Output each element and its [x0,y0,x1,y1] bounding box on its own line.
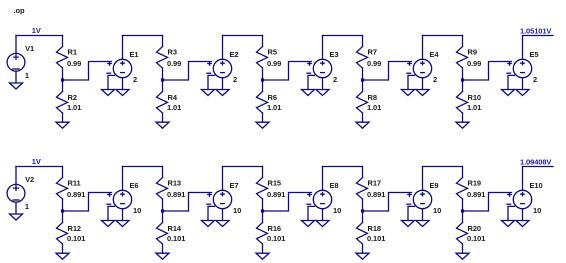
svg-text:2: 2 [533,75,537,84]
ground at R12 [56,253,69,259]
resistor R12 [57,223,86,245]
svg-text:0.99: 0.99 [67,59,81,68]
resistor R19 [457,178,486,200]
svg-text:R8: R8 [368,93,377,102]
svg-text:1.01: 1.01 [167,103,181,112]
resistor R16 [257,223,286,245]
node junction at R17/R18 [361,209,364,212]
svg-text:E5: E5 [530,50,539,59]
wire top rail E9 to next stage [423,166,463,168]
wire E7 output to top rail [222,167,224,191]
wire E9 bottom pin to ground [422,209,424,221]
ground at E9 control minus [402,221,415,227]
svg-text:0.99: 0.99 [167,59,181,68]
wire junction to E8 control plus [263,193,312,212]
ground at E10 control minus [502,221,515,227]
wire V1 bottom to ground [15,72,17,84]
wire rail lead into R1 [62,36,64,47]
wire V1 top stub [15,36,17,54]
wire V2 top stub [15,167,17,185]
svg-text:V1: V1 [25,44,34,53]
node junction at R3/R4 [161,78,164,81]
ground at R2 [56,122,69,128]
wire junction into R8 [362,80,364,92]
wire E10 output to top rail [522,167,524,191]
svg-text:0.101: 0.101 [367,234,385,243]
wire R16 to ground [262,244,264,253]
wire top rail V2 to R11 [16,166,63,168]
wire E1 control minus to ground [108,75,115,89]
svg-text:0.891: 0.891 [267,190,285,199]
wire E9 output to top rail [422,167,424,191]
svg-text:R13: R13 [168,179,181,188]
svg-text:R2: R2 [68,93,77,102]
ground at E3 control minus [302,90,315,96]
ground at E7 control minus [202,221,215,227]
svg-text:10: 10 [533,206,541,215]
svg-text:1.09408V: 1.09408V [520,157,551,166]
svg-text:E8: E8 [330,181,339,190]
wire E6 bottom pin to ground [122,209,124,221]
wire rail lead into R13 [162,167,164,178]
wire E5 bottom pin to ground [522,78,524,90]
wire E1 bottom pin to ground [122,78,124,90]
resistor R15 [257,178,286,200]
resistor R13 [157,178,186,200]
wire junction to E10 control plus [463,193,512,212]
vcvs E3 [307,50,338,84]
ground at R16 [256,253,269,259]
ground at E6 bottom [116,221,129,227]
vcvs E5 [507,50,538,84]
wire junction to E3 control plus [263,62,312,81]
ground at R6 [256,122,269,128]
wire E9 control minus to ground [408,206,415,220]
svg-text:R4: R4 [168,93,178,102]
svg-text:R16: R16 [268,224,281,233]
vcvs E10 [507,181,543,215]
wire top rail E6 to next stage [123,166,163,168]
wire E8 bottom pin to ground [322,209,324,221]
wire junction to E4 control plus [363,62,412,81]
wire E3 output to top rail [322,36,324,60]
wire E3 control minus to ground [308,75,315,89]
svg-text:R10: R10 [468,93,481,102]
vcvs E6 [107,181,141,215]
wire R18 to ground [362,244,364,253]
wire E5 output to top rail [522,36,524,60]
vcvs E8 [307,181,341,215]
svg-text:.op: .op [14,6,25,15]
svg-text:V2: V2 [25,175,34,184]
ground at E5 control minus [502,90,515,96]
wire top rail V1 to R1 [16,35,63,37]
wire junction into R4 [162,80,164,92]
svg-text:0.891: 0.891 [467,190,485,199]
wire E3 bottom pin to ground [322,78,324,90]
ground at R18 [356,253,369,259]
ground at E1 bottom [116,90,129,96]
wire E5 control minus to ground [508,75,515,89]
wire R7 to node junction [362,68,364,80]
wire junction into R20 [462,211,464,223]
wire output stub at E10 [523,166,554,168]
wire E8 control minus to ground [308,206,315,220]
wire R12 to ground [62,244,64,253]
ground at V2 [10,214,23,220]
svg-text:1: 1 [25,71,29,80]
wire rail lead into R19 [462,167,464,178]
ground at R20 [456,253,469,259]
wire junction into R18 [362,211,364,223]
wire rail lead into R9 [462,36,464,47]
wire rail lead into R7 [362,36,364,47]
svg-text:E6: E6 [130,181,139,190]
svg-text:R19: R19 [468,179,481,188]
wire junction into R12 [62,211,64,223]
wire R2 to ground [62,113,64,122]
svg-text:1V: 1V [32,157,41,166]
ground at E8 bottom [316,221,329,227]
vcvs E2 [207,50,238,84]
wire junction into R10 [462,80,464,92]
svg-text:0.99: 0.99 [267,59,281,68]
wire E7 bottom pin to ground [222,209,224,221]
svg-text:R11: R11 [68,179,81,188]
wire E4 control minus to ground [408,75,415,89]
svg-text:0.101: 0.101 [467,234,485,243]
svg-text:R18: R18 [368,224,381,233]
wire R10 to ground [462,113,464,122]
wire R15 to node junction [262,199,264,211]
svg-text:0.101: 0.101 [167,234,185,243]
resistor R10 [457,92,482,114]
wire E2 control minus to ground [208,75,215,89]
svg-text:1.01: 1.01 [467,103,481,112]
wire junction into R6 [262,80,264,92]
svg-text:2: 2 [233,75,237,84]
resistor R6 [257,92,282,114]
wire top rail E8 to next stage [323,166,363,168]
wire E1 output to top rail [122,36,124,60]
wire top rail E7 to next stage [223,166,263,168]
vcvs E9 [407,181,441,215]
wire R5 to node junction [262,68,264,80]
svg-text:E7: E7 [230,181,239,190]
wire top rail E2 to next stage [223,35,263,37]
wire E8 output to top rail [322,167,324,191]
wire E7 control minus to ground [208,206,215,220]
wire E6 output to top rail [122,167,124,191]
resistor R18 [357,223,386,245]
wire junction to E9 control plus [363,193,412,212]
svg-text:R17: R17 [368,179,381,188]
resistor R7 [357,47,382,69]
wire junction to E2 control plus [163,62,212,81]
wire E4 output to top rail [422,36,424,60]
ground at E9 bottom [416,221,429,227]
svg-text:0.891: 0.891 [367,190,385,199]
wire rail lead into R15 [262,167,264,178]
node junction at R19/R20 [461,209,464,212]
svg-text:R7: R7 [368,48,377,57]
ground at V1 [10,83,23,89]
svg-text:1.01: 1.01 [67,103,81,112]
svg-text:0.101: 0.101 [67,234,85,243]
svg-text:1: 1 [25,202,29,211]
resistor R20 [457,223,486,245]
wire R11 to node junction [62,199,64,211]
ground at E6 control minus [102,221,115,227]
wire R19 to node junction [462,199,464,211]
wire V2 bottom to ground [15,203,17,215]
svg-text:2: 2 [433,75,437,84]
svg-text:0.891: 0.891 [167,190,185,199]
wire top rail E4 to next stage [423,35,463,37]
wire rail lead into R3 [162,36,164,47]
wire R3 to node junction [162,68,164,80]
wire E2 bottom pin to ground [222,78,224,90]
ground at E10 bottom [516,221,529,227]
node junction at R13/R14 [161,209,164,212]
svg-text:E9: E9 [430,181,439,190]
wire R4 to ground [162,113,164,122]
wire R9 to node junction [462,68,464,80]
svg-text:R6: R6 [268,93,277,102]
svg-text:E4: E4 [430,50,440,59]
svg-text:10: 10 [333,206,341,215]
wire top rail E3 to next stage [323,35,363,37]
wire junction into R2 [62,80,64,92]
resistor R3 [157,47,182,69]
vcvs E1 [107,50,138,84]
voltage source V1 [7,44,34,80]
wire output stub at E5 [523,35,554,37]
wire junction to E7 control plus [163,193,212,212]
ground at E5 bottom [516,90,529,96]
wire rail lead into R5 [262,36,264,47]
ground at E7 bottom [216,221,229,227]
ground at E2 control minus [202,90,215,96]
voltage source V2 [7,175,34,211]
resistor R11 [57,178,86,200]
ground at E3 bottom [316,90,329,96]
ground at E2 bottom [216,90,229,96]
ground at R10 [456,122,469,128]
svg-text:2: 2 [333,75,337,84]
wire E6 control minus to ground [108,206,115,220]
svg-text:R9: R9 [468,48,477,57]
svg-text:1.05101V: 1.05101V [520,26,551,35]
wire R8 to ground [362,113,364,122]
wire junction to E1 control plus [63,62,112,81]
svg-text:1.01: 1.01 [367,103,381,112]
svg-text:R20: R20 [468,224,481,233]
resistor R4 [157,92,182,114]
svg-text:0.99: 0.99 [467,59,481,68]
resistor R17 [357,178,386,200]
ground at E4 control minus [402,90,415,96]
wire E10 bottom pin to ground [522,209,524,221]
wire junction to E6 control plus [63,193,112,212]
svg-text:R1: R1 [68,48,77,57]
resistor R9 [457,47,482,69]
node junction at R15/R16 [261,209,264,212]
svg-text:0.891: 0.891 [67,190,85,199]
ground at E4 bottom [416,90,429,96]
svg-text:R12: R12 [68,224,81,233]
resistor R14 [157,223,186,245]
node junction at R7/R8 [361,78,364,81]
wire E4 bottom pin to ground [422,78,424,90]
resistor R2 [57,92,82,114]
wire R14 to ground [162,244,164,253]
svg-text:R15: R15 [268,179,281,188]
vcvs E7 [207,181,241,215]
resistor R5 [257,47,282,69]
svg-text:10: 10 [133,206,141,215]
wire E10 control minus to ground [508,206,515,220]
svg-text:E3: E3 [330,50,339,59]
wire rail lead into R17 [362,167,364,178]
node junction at R11/R12 [61,209,64,212]
wire top rail E1 to next stage [123,35,163,37]
ground at R14 [156,253,169,259]
wire E2 output to top rail [222,36,224,60]
node junction at R9/R10 [461,78,464,81]
ground at R4 [156,122,169,128]
svg-text:E2: E2 [230,50,239,59]
node junction at R5/R6 [261,78,264,81]
node junction at R1/R2 [61,78,64,81]
wire R17 to node junction [362,199,364,211]
svg-text:E10: E10 [530,181,543,190]
resistor R1 [57,47,82,69]
wire R20 to ground [462,244,464,253]
wire junction into R14 [162,211,164,223]
ground at E8 control minus [302,221,315,227]
svg-text:10: 10 [433,206,441,215]
wire R13 to node junction [162,199,164,211]
svg-text:1V: 1V [32,26,41,35]
svg-text:1.01: 1.01 [267,103,281,112]
svg-text:R14: R14 [168,224,182,233]
svg-text:2: 2 [133,75,137,84]
svg-text:R5: R5 [268,48,277,57]
wire R6 to ground [262,113,264,122]
resistor R8 [357,92,382,114]
svg-text:10: 10 [233,206,241,215]
svg-text:E1: E1 [130,50,139,59]
vcvs E4 [407,50,439,84]
ground at E1 control minus [102,90,115,96]
svg-text:R3: R3 [168,48,177,57]
ground at R8 [356,122,369,128]
wire rail lead into R11 [62,167,64,178]
wire junction into R16 [262,211,264,223]
svg-text:0.101: 0.101 [267,234,285,243]
wire R1 to node junction [62,68,64,80]
svg-text:0.99: 0.99 [367,59,381,68]
wire junction to E5 control plus [463,62,512,81]
